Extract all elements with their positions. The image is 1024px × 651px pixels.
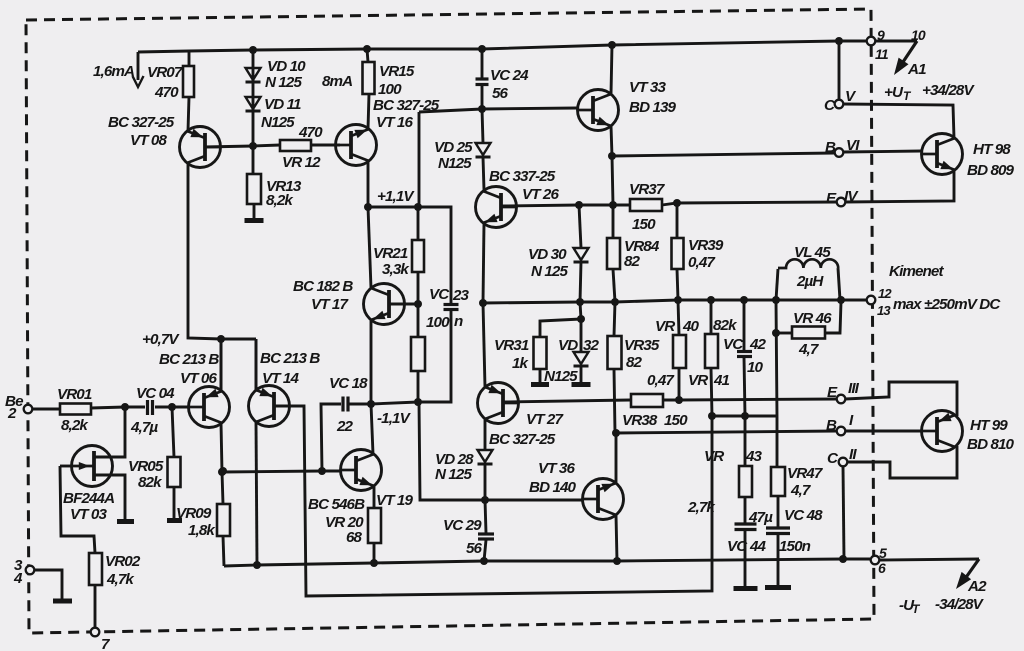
svg-text:VD 11: VD 11 xyxy=(264,96,301,113)
svg-text:VR15: VR15 xyxy=(379,63,415,80)
svg-text:+0,7V: +0,7V xyxy=(142,331,180,348)
svg-text:5: 5 xyxy=(879,545,887,561)
svg-text:BC 213 B: BC 213 B xyxy=(260,350,320,367)
svg-text:BC 337-25: BC 337-25 xyxy=(489,168,556,185)
svg-text:VC: VC xyxy=(727,538,748,555)
svg-text:max ±250mV DC: max ±250mV DC xyxy=(893,296,1001,313)
svg-text:BC 327-25: BC 327-25 xyxy=(489,431,556,448)
svg-text:VC 24: VC 24 xyxy=(490,67,529,84)
svg-text:E: E xyxy=(826,190,837,207)
svg-text:56: 56 xyxy=(466,540,483,557)
svg-text:BC 182 B: BC 182 B xyxy=(293,278,353,295)
svg-text:VT 16: VT 16 xyxy=(376,114,413,131)
svg-text:VC 04: VC 04 xyxy=(136,385,175,402)
svg-text:B: B xyxy=(826,417,837,434)
svg-text:VR: VR xyxy=(655,318,675,335)
svg-text:VC 29: VC 29 xyxy=(443,517,482,534)
svg-text:4,7µ: 4,7µ xyxy=(130,419,158,436)
svg-text:4,7: 4,7 xyxy=(798,341,820,358)
svg-text:470: 470 xyxy=(298,124,323,141)
svg-text:III: III xyxy=(848,380,860,397)
svg-text:11: 11 xyxy=(875,46,889,62)
svg-text:N125: N125 xyxy=(261,114,295,131)
svg-text:VT 36: VT 36 xyxy=(538,460,575,477)
svg-text:+U: +U xyxy=(884,84,904,101)
svg-text:22: 22 xyxy=(336,418,354,435)
svg-text:82k: 82k xyxy=(138,474,163,491)
svg-text:VR09: VR09 xyxy=(176,505,212,522)
svg-text:1,8k: 1,8k xyxy=(188,522,216,539)
svg-text:n: n xyxy=(454,313,463,330)
svg-text:B: B xyxy=(825,139,836,156)
svg-text:+34/28V: +34/28V xyxy=(922,82,975,99)
svg-text:BD 809: BD 809 xyxy=(967,162,1015,179)
svg-text:68: 68 xyxy=(346,529,363,546)
svg-text:VT 08: VT 08 xyxy=(130,132,167,149)
svg-text:43: 43 xyxy=(745,448,763,465)
svg-text:8,2k: 8,2k xyxy=(61,417,89,434)
svg-text:VC: VC xyxy=(723,336,744,353)
svg-text:150: 150 xyxy=(632,216,656,233)
svg-text:-34/28V: -34/28V xyxy=(935,596,985,613)
svg-text:41: 41 xyxy=(713,372,730,389)
svg-text:VT 19: VT 19 xyxy=(376,492,413,509)
svg-text:VR05: VR05 xyxy=(128,458,164,475)
svg-text:BF244A: BF244A xyxy=(63,490,114,507)
svg-text:VR35: VR35 xyxy=(624,337,660,354)
svg-text:82: 82 xyxy=(626,354,643,371)
svg-text:VR: VR xyxy=(688,372,708,389)
svg-text:100: 100 xyxy=(426,314,450,331)
svg-text:N 125: N 125 xyxy=(435,466,472,483)
svg-text:VR37: VR37 xyxy=(629,181,666,198)
svg-text:VR07: VR07 xyxy=(147,64,184,81)
svg-text:VT 33: VT 33 xyxy=(629,79,666,96)
svg-text:BC 327-25: BC 327-25 xyxy=(373,97,440,114)
svg-text:10: 10 xyxy=(911,27,926,43)
svg-text:VR02: VR02 xyxy=(105,553,141,570)
svg-text:BD 810: BD 810 xyxy=(967,436,1015,453)
svg-text:VR38: VR38 xyxy=(622,412,658,429)
svg-text:VD 10: VD 10 xyxy=(267,58,306,75)
svg-text:6: 6 xyxy=(878,560,886,576)
svg-text:T: T xyxy=(903,89,912,103)
svg-text:150: 150 xyxy=(664,412,688,429)
svg-text:8,2k: 8,2k xyxy=(266,192,294,209)
svg-text:C: C xyxy=(827,450,839,467)
svg-text:VT 27: VT 27 xyxy=(526,411,564,428)
svg-text:100: 100 xyxy=(378,81,402,98)
svg-text:T: T xyxy=(912,602,921,616)
svg-text:47µ: 47µ xyxy=(748,509,773,526)
svg-text:I: I xyxy=(849,412,854,429)
svg-text:2,7k: 2,7k xyxy=(687,499,716,516)
svg-text:12: 12 xyxy=(878,286,892,301)
svg-text:BC 546B: BC 546B xyxy=(308,496,365,513)
svg-text:N 125: N 125 xyxy=(531,263,568,280)
svg-text:VC: VC xyxy=(429,286,450,303)
svg-text:0,47: 0,47 xyxy=(688,254,716,271)
svg-text:13: 13 xyxy=(877,303,891,318)
svg-text:42: 42 xyxy=(749,336,767,353)
svg-text:9: 9 xyxy=(877,27,885,43)
svg-text:II: II xyxy=(849,446,857,463)
svg-text:VT 06: VT 06 xyxy=(180,370,217,387)
svg-text:VR47: VR47 xyxy=(787,465,824,482)
svg-text:VT 17: VT 17 xyxy=(311,296,349,313)
svg-text:VC 18: VC 18 xyxy=(329,375,368,392)
svg-text:VD 30: VD 30 xyxy=(528,246,567,263)
svg-text:1,6mA: 1,6mA xyxy=(93,63,134,80)
svg-text:VT 26: VT 26 xyxy=(522,186,559,203)
svg-text:150n: 150n xyxy=(779,538,811,555)
svg-text:VD: VD xyxy=(558,337,578,354)
svg-text:VD 25: VD 25 xyxy=(434,139,473,156)
svg-text:23: 23 xyxy=(452,287,470,304)
svg-text:0,47: 0,47 xyxy=(647,372,675,389)
svg-text:HT 98: HT 98 xyxy=(973,141,1011,158)
svg-text:VR39: VR39 xyxy=(688,237,724,254)
svg-text:8mA: 8mA xyxy=(322,73,352,90)
svg-text:VR01: VR01 xyxy=(57,386,92,403)
svg-text:VR 46: VR 46 xyxy=(793,310,832,327)
svg-text:HT 99: HT 99 xyxy=(970,417,1008,434)
svg-text:BC 327-25: BC 327-25 xyxy=(108,114,175,131)
svg-text:Kimenet: Kimenet xyxy=(889,263,944,280)
svg-text:VL 45: VL 45 xyxy=(794,244,831,261)
svg-text:+1,1V: +1,1V xyxy=(377,188,415,205)
svg-text:7: 7 xyxy=(101,636,111,651)
svg-text:56: 56 xyxy=(492,85,509,102)
svg-text:N125: N125 xyxy=(544,368,578,385)
svg-text:VR21: VR21 xyxy=(373,245,408,262)
svg-text:44: 44 xyxy=(749,538,767,555)
svg-text:4: 4 xyxy=(13,570,23,587)
svg-text:VC 48: VC 48 xyxy=(784,507,823,524)
svg-text:4,7k: 4,7k xyxy=(106,571,135,588)
svg-text:40: 40 xyxy=(682,318,700,335)
svg-text:VT 03: VT 03 xyxy=(70,506,107,523)
svg-text:2: 2 xyxy=(7,405,17,422)
svg-text:VI: VI xyxy=(846,137,860,154)
svg-text:BD 140: BD 140 xyxy=(529,479,577,496)
svg-text:VR31: VR31 xyxy=(494,337,529,354)
svg-text:N125: N125 xyxy=(438,155,472,172)
svg-text:32: 32 xyxy=(583,337,600,354)
svg-text:VT 14: VT 14 xyxy=(262,370,299,387)
svg-text:BD 139: BD 139 xyxy=(629,99,677,116)
svg-text:A2: A2 xyxy=(967,578,987,595)
svg-text:A1: A1 xyxy=(907,61,926,78)
svg-text:VR 12: VR 12 xyxy=(282,154,321,171)
svg-text:VR: VR xyxy=(704,448,724,465)
svg-text:470: 470 xyxy=(154,84,179,101)
svg-text:82k: 82k xyxy=(713,317,738,334)
svg-text:1k: 1k xyxy=(512,355,530,372)
svg-text:10: 10 xyxy=(747,359,764,376)
svg-text:V: V xyxy=(845,88,857,105)
svg-text:82: 82 xyxy=(624,253,641,270)
svg-text:3,3k: 3,3k xyxy=(382,261,410,278)
svg-text:-1,1V: -1,1V xyxy=(377,410,412,427)
svg-text:BC 213 B: BC 213 B xyxy=(159,351,219,368)
svg-text:2µH: 2µH xyxy=(796,273,824,290)
svg-text:4,7: 4,7 xyxy=(790,482,812,499)
svg-text:N 125: N 125 xyxy=(265,74,302,91)
